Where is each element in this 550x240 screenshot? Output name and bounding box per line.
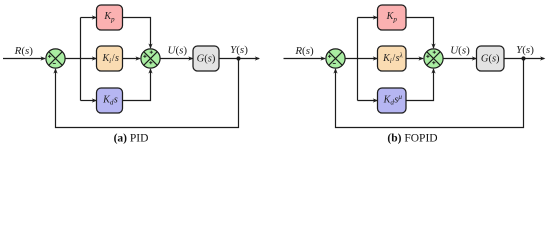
summing junction S1b: comparator circle with + and −: [326, 49, 345, 68]
svg-text:(b) FOPID: (b) FOPID: [387, 133, 437, 145]
wire: R(s) input into summing junction S1b: [284, 56, 326, 60]
svg-text:R(s): R(s): [14, 45, 34, 57]
wire: K_p output right then down into S2b: [406, 18, 436, 49]
block K_d: derivative term: [378, 88, 407, 113]
wire: K_d output right then up into S2b: [406, 68, 436, 100]
summing junction S2b: adds P, I, D terms: [424, 49, 443, 68]
wire: K_d output right then up into S2a: [123, 68, 153, 100]
block G(s): plant transfer function: [477, 46, 505, 71]
svg-text:G(s): G(s): [197, 54, 216, 65]
block K_i: integral term: [97, 46, 123, 71]
wire: S1a output through branch point into K_i block: [65, 56, 97, 60]
caption (b) FOPID: [387, 133, 437, 145]
block K_i: integral term: [378, 46, 407, 71]
svg-text:Y(s): Y(s): [516, 44, 534, 56]
wire: G(s) output to Y(s) arrow: [219, 56, 260, 60]
block K_p: proportional gain: [378, 5, 407, 30]
summing junction S1a: comparator circle with + and −: [46, 49, 65, 68]
wire: branch to K_d block input: [358, 98, 379, 102]
wire: K_i output into S2a: [123, 56, 141, 60]
svg-text:G(s): G(s): [481, 54, 500, 65]
node U(s): control signal label: [168, 44, 188, 56]
wire: feedback path from takeoff node down, across, and up into S1a: [53, 59, 238, 128]
junction dot: output takeoff node: [521, 56, 525, 60]
wire: S1b output through branch point into K_i block: [345, 56, 378, 60]
block K_d: derivative term: [97, 88, 123, 113]
junction dot: output takeoff node: [236, 56, 240, 60]
wire: branch to K_p block input: [358, 15, 379, 19]
node Y(s): output signal label: [230, 44, 248, 56]
node Y(s): output signal label: [516, 44, 534, 56]
wire: feedback path from takeoff node down, across, and up into S1b: [333, 59, 523, 128]
wire: branch vertical splitting to K_p and K_d rows: [357, 18, 359, 101]
caption (a) PID: [114, 133, 149, 145]
wire: branch vertical splitting to K_p and K_d rows: [80, 18, 82, 101]
wire: branch to K_p block input: [81, 15, 98, 19]
wire: S2b output U(s) into plant G(s): [443, 56, 477, 60]
wire: K_i output into S2b: [406, 56, 424, 60]
wire: S2a output U(s) into plant G(s): [160, 56, 193, 60]
block K_p: proportional gain: [97, 5, 123, 30]
wire: K_p output right then down into S2a: [123, 18, 153, 49]
node R(s): reference input label: [14, 45, 34, 57]
svg-text:(a) PID: (a) PID: [114, 133, 149, 145]
svg-text:Y(s): Y(s): [230, 44, 248, 56]
wire: G(s) output to Y(s) arrow: [504, 56, 545, 60]
svg-text:U(s): U(s): [450, 44, 470, 56]
summing junction S2a: adds P, I, D terms: [141, 49, 160, 68]
node U(s): control signal label: [450, 44, 470, 56]
wire: branch to K_d block input: [81, 98, 98, 102]
block G(s): plant transfer function: [193, 46, 219, 71]
svg-text:R(s): R(s): [294, 45, 314, 57]
node R(s): reference input label: [294, 45, 314, 57]
wire: R(s) input into summing junction S1a: [3, 56, 46, 60]
svg-text:U(s): U(s): [168, 44, 188, 56]
